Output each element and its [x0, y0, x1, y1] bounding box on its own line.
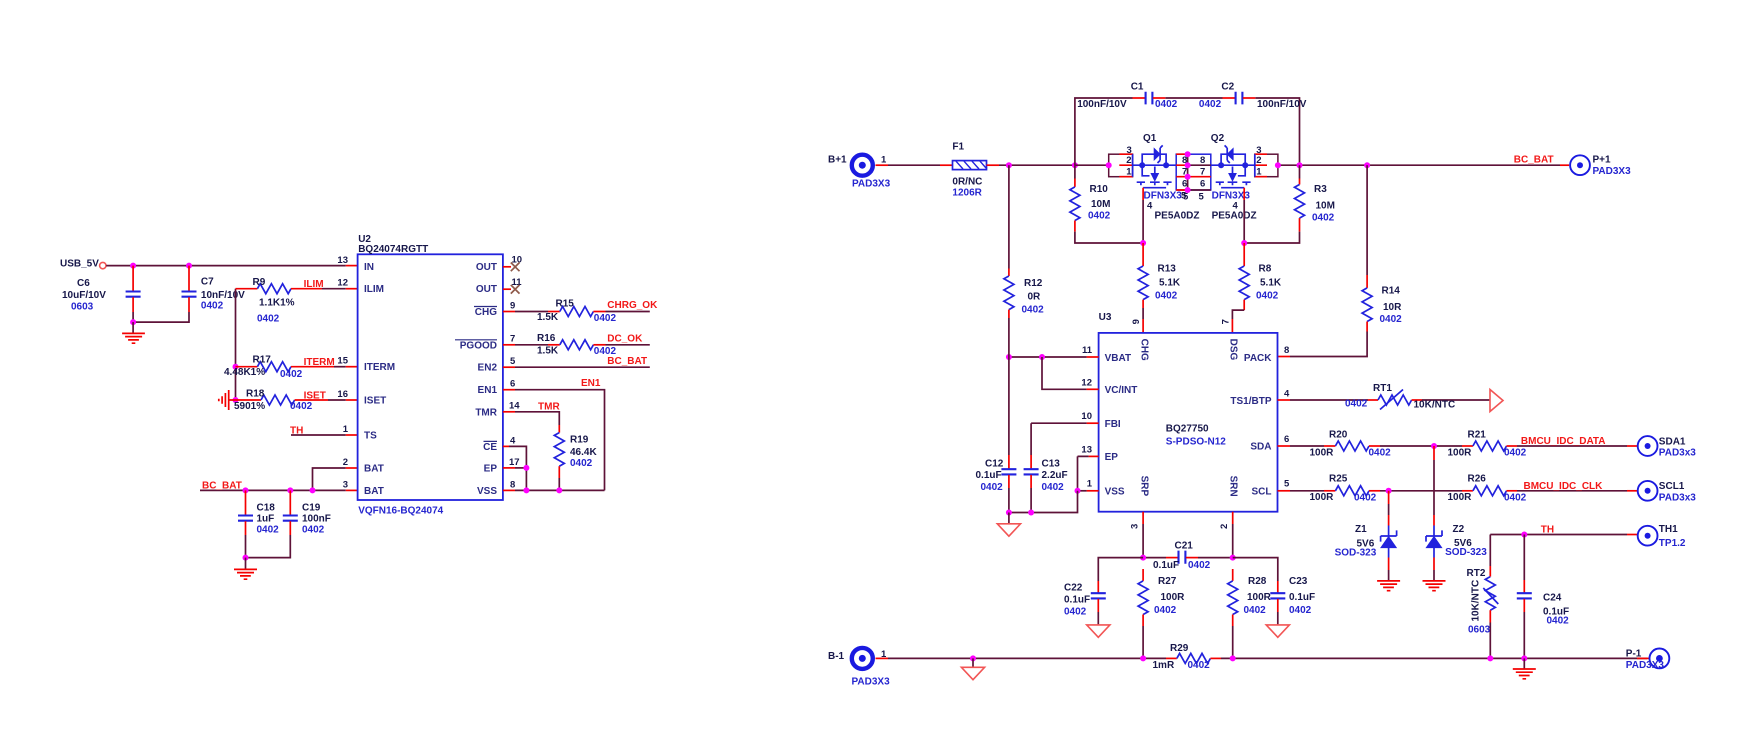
svg-text:10: 10: [1081, 411, 1092, 422]
junction: [1521, 655, 1527, 661]
svg-text:6: 6: [510, 379, 515, 390]
wire B- rail: [876, 657, 889, 659]
wire VSS pin: [1087, 490, 1099, 492]
svg-text:4: 4: [510, 435, 516, 446]
svg-text:OUT: OUT: [476, 284, 497, 295]
pad P+1: [1570, 155, 1590, 175]
ground (earth) under Z1: [1377, 581, 1400, 591]
ground (triangle) under C22: [1087, 625, 1110, 637]
svg-text:SOD-323: SOD-323: [1335, 548, 1377, 559]
svg-text:100R: 100R: [1310, 447, 1335, 458]
svg-text:0402: 0402: [1256, 290, 1279, 301]
svg-text:EN2: EN2: [478, 363, 498, 374]
svg-text:1: 1: [1126, 166, 1132, 177]
zener Z2 (on SDA): [1433, 446, 1435, 460]
svg-text:17: 17: [509, 457, 520, 468]
pad TH1: [1638, 526, 1658, 546]
svg-text:4.48K1%: 4.48K1%: [224, 367, 265, 378]
thermistor RT2: [1489, 535, 1491, 567]
svg-text:9: 9: [1131, 319, 1142, 324]
off-page arrow: [1490, 390, 1503, 412]
svg-text:EN1: EN1: [478, 385, 498, 396]
svg-text:PAD3X3: PAD3X3: [852, 179, 891, 190]
svg-text:0402: 0402: [302, 525, 325, 536]
svg-text:DC_OK: DC_OK: [607, 334, 643, 345]
resistor R21: [1462, 445, 1473, 447]
svg-text:R13: R13: [1158, 263, 1177, 274]
svg-text:R26: R26: [1468, 474, 1487, 485]
svg-text:0R: 0R: [1028, 292, 1042, 303]
svg-text:BQ24074RGTT: BQ24074RGTT: [358, 244, 428, 255]
wire EN1 loop: [503, 389, 515, 391]
junction: [1140, 555, 1146, 561]
junction: [523, 465, 529, 471]
IC U3 BQ27750 box: [1099, 333, 1278, 512]
wire ILIM vertical feed: [235, 289, 237, 400]
capacitor C12: [1008, 357, 1010, 455]
svg-text:VBAT: VBAT: [1105, 353, 1131, 364]
capacitor C2: [1223, 97, 1236, 99]
wire gnd rail under C12/C13: [1009, 491, 1078, 513]
resistor R9: [236, 288, 258, 290]
svg-text:RT2: RT2: [1467, 568, 1486, 579]
svg-text:4: 4: [1284, 388, 1290, 399]
junction: [1364, 162, 1370, 168]
svg-text:0402: 0402: [1064, 606, 1087, 617]
svg-text:R16: R16: [537, 333, 556, 344]
svg-text:R19: R19: [570, 435, 589, 446]
capacitor C22: [1098, 558, 1143, 581]
pad P-1: [1637, 657, 1650, 659]
svg-text:100nF/10V: 100nF/10V: [1257, 99, 1307, 110]
svg-text:R15: R15: [556, 299, 575, 310]
svg-text:TH1: TH1: [1659, 524, 1678, 535]
wire main line segments: [1075, 164, 1109, 166]
svg-text:0402: 0402: [1154, 605, 1177, 616]
svg-text:R25: R25: [1329, 474, 1348, 485]
svg-text:1: 1: [1256, 166, 1262, 177]
svg-text:0402: 0402: [1504, 448, 1527, 459]
junction: [310, 487, 316, 493]
svg-text:C13: C13: [1042, 459, 1061, 470]
ground (earth) under C18: [245, 558, 247, 569]
ground (triangle) on B- rail: [972, 658, 974, 666]
svg-text:2: 2: [1256, 155, 1261, 166]
junction: [233, 364, 239, 370]
capacitor C24: [1523, 535, 1525, 581]
junction: [243, 555, 249, 561]
junction: [243, 487, 249, 493]
svg-text:5.1K: 5.1K: [1159, 277, 1181, 288]
svg-text:0402: 0402: [1354, 492, 1377, 503]
svg-text:9: 9: [510, 300, 515, 311]
svg-text:100R: 100R: [1448, 447, 1473, 458]
svg-text:7: 7: [1182, 166, 1187, 177]
svg-text:4: 4: [1147, 201, 1153, 212]
resistor R29: [1166, 657, 1177, 659]
svg-text:0402: 0402: [1188, 660, 1211, 671]
wire Q1 gate down: [1142, 188, 1144, 200]
capacitor C6: [132, 266, 134, 291]
junction: [1487, 655, 1493, 661]
svg-text:0.1uF: 0.1uF: [976, 470, 1002, 481]
svg-text:P-1: P-1: [1626, 649, 1642, 660]
junction: [130, 263, 136, 269]
svg-text:0402: 0402: [1345, 398, 1368, 409]
resistor R18: [236, 399, 262, 401]
svg-text:C1: C1: [1131, 82, 1144, 93]
svg-text:Q1: Q1: [1143, 133, 1157, 144]
svg-text:FBI: FBI: [1105, 419, 1121, 430]
svg-text:R29: R29: [1170, 643, 1189, 654]
ground (earth) under C6/C7: [132, 322, 134, 333]
wire SRN down: [1232, 512, 1234, 524]
svg-text:16: 16: [337, 389, 348, 400]
svg-text:BC_BAT: BC_BAT: [1514, 155, 1554, 166]
svg-text:13: 13: [1081, 444, 1092, 455]
svg-text:C19: C19: [302, 503, 321, 514]
svg-text:1uF: 1uF: [257, 514, 275, 525]
wire B+1 to F1: [876, 164, 889, 166]
svg-text:C2: C2: [1221, 82, 1234, 93]
wire EN2 BC_BAT: [503, 366, 515, 368]
wire TMR: [503, 411, 515, 413]
svg-text:P+1: P+1: [1593, 155, 1612, 166]
svg-text:BAT: BAT: [364, 486, 384, 497]
svg-text:100R: 100R: [1247, 592, 1272, 603]
svg-text:100R: 100R: [1161, 592, 1186, 603]
svg-text:S-PDSO-N12: S-PDSO-N12: [1166, 436, 1226, 447]
junction: [1140, 240, 1146, 246]
svg-text:7: 7: [1220, 319, 1231, 324]
svg-text:R21: R21: [1468, 430, 1487, 441]
resistor R8: [1243, 243, 1245, 266]
svg-text:10nF/10V: 10nF/10V: [201, 290, 245, 301]
svg-text:R28: R28: [1248, 576, 1267, 587]
svg-text:R3: R3: [1314, 184, 1327, 195]
connector pin box Q1 left (pins 3/2/1): [1109, 154, 1133, 177]
wire VSS bottom run: [503, 489, 515, 491]
ground (triangle) under C23: [1266, 625, 1289, 637]
svg-text:PE5A0DZ: PE5A0DZ: [1212, 210, 1257, 221]
svg-text:C12: C12: [985, 459, 1004, 470]
svg-text:0.1uF: 0.1uF: [1289, 592, 1315, 603]
svg-text:5: 5: [1284, 479, 1290, 490]
capacitor C21: [1143, 557, 1166, 559]
svg-text:R14: R14: [1382, 286, 1401, 297]
junction: [1230, 655, 1236, 661]
svg-text:BAT: BAT: [364, 463, 384, 474]
U2 overbars CHG/PGOOD/CE: [455, 307, 497, 442]
svg-text:U3: U3: [1099, 312, 1112, 323]
wire BC_BAT to BAT pin3: [200, 489, 346, 491]
connector pin box middle (pins 8/7/6): [1176, 154, 1211, 190]
svg-text:5: 5: [510, 356, 516, 367]
svg-text:C23: C23: [1289, 576, 1308, 587]
svg-text:7: 7: [510, 334, 515, 345]
svg-text:B-1: B-1: [828, 651, 845, 662]
svg-text:14: 14: [509, 401, 520, 412]
svg-text:C24: C24: [1543, 592, 1562, 603]
svg-text:RT1: RT1: [1373, 383, 1392, 394]
svg-text:BC_BAT: BC_BAT: [202, 481, 242, 492]
resistor R10: [1074, 179, 1076, 187]
svg-text:0R/NC: 0R/NC: [952, 177, 982, 188]
svg-text:0402: 0402: [201, 301, 224, 312]
svg-text:BMCU_IDC_CLK: BMCU_IDC_CLK: [1524, 481, 1604, 492]
svg-text:PAD3X3: PAD3X3: [1626, 660, 1665, 671]
capacitor C23: [1233, 558, 1278, 581]
svg-text:DFN3X3: DFN3X3: [1144, 190, 1183, 201]
capacitor C13 / FBI: [1087, 422, 1099, 424]
ground (triangle) under C12 rail: [1008, 513, 1010, 524]
svg-text:VC/INT: VC/INT: [1105, 385, 1138, 396]
svg-text:0402: 0402: [1042, 482, 1065, 493]
svg-text:8: 8: [1284, 345, 1289, 356]
wire top loop: [1075, 98, 1300, 165]
svg-text:BC_BAT: BC_BAT: [607, 356, 647, 367]
svg-text:5901%: 5901%: [234, 401, 265, 412]
svg-text:0402: 0402: [1188, 560, 1211, 571]
svg-text:R27: R27: [1158, 576, 1177, 587]
svg-text:R18: R18: [246, 389, 265, 400]
svg-text:8: 8: [1200, 155, 1205, 166]
svg-text:7: 7: [1200, 166, 1205, 177]
svg-text:R17: R17: [253, 355, 272, 366]
wire TH net: [1490, 534, 1627, 536]
svg-text:BQ27750: BQ27750: [1166, 424, 1209, 435]
svg-text:0402: 0402: [1155, 99, 1178, 110]
svg-text:3: 3: [343, 479, 348, 490]
svg-text:TMR: TMR: [538, 402, 560, 413]
svg-text:6: 6: [1284, 434, 1289, 445]
svg-text:0603: 0603: [71, 301, 94, 312]
junction: [1230, 555, 1236, 561]
junction: [1006, 162, 1012, 168]
svg-text:1: 1: [343, 424, 349, 435]
svg-text:R12: R12: [1024, 278, 1043, 289]
resistor R3: [1299, 179, 1301, 185]
svg-text:B+1: B+1: [828, 154, 847, 165]
svg-text:0402: 0402: [1022, 305, 1045, 316]
ground tap (left-pointing earth) at R18: [219, 390, 236, 410]
pad SDA1: [1638, 436, 1658, 456]
junction: [1241, 240, 1247, 246]
svg-text:TS: TS: [364, 431, 377, 442]
svg-text:PAD3x3: PAD3x3: [1659, 492, 1696, 503]
wire USB_5V to U2 pin13: [106, 265, 346, 267]
svg-text:0402: 0402: [1380, 314, 1403, 325]
svg-text:10M: 10M: [1316, 201, 1335, 212]
junction: [1072, 162, 1078, 168]
svg-text:TP1.2: TP1.2: [1659, 538, 1686, 549]
svg-text:C7: C7: [201, 277, 214, 288]
capacitor C18: [245, 490, 247, 515]
resistor R16 PGOOD net: [503, 344, 515, 346]
svg-text:R8: R8: [1259, 263, 1272, 274]
svg-text:PAD3x3: PAD3x3: [1659, 448, 1696, 459]
svg-text:5: 5: [1199, 192, 1205, 203]
svg-text:0402: 0402: [257, 525, 280, 536]
svg-text:1: 1: [1087, 479, 1093, 490]
pad B+1: [852, 155, 873, 176]
svg-text:1.5K: 1.5K: [537, 312, 559, 323]
svg-text:0.1uF: 0.1uF: [1153, 560, 1179, 571]
svg-text:1: 1: [881, 154, 887, 165]
svg-text:Z1: Z1: [1355, 524, 1367, 535]
resistor R26: [1462, 490, 1473, 492]
wire CE/EP/VSS tie: [503, 445, 509, 447]
zener Z1 (on SCL): [1388, 491, 1390, 504]
junction: [130, 319, 136, 325]
svg-text:1.1K1%: 1.1K1%: [259, 297, 295, 308]
svg-text:SCL1: SCL1: [1659, 481, 1685, 492]
svg-text:0402: 0402: [257, 313, 280, 324]
svg-text:EP: EP: [484, 463, 498, 474]
wire EP tie to VSS: [1089, 455, 1099, 457]
svg-text:TH: TH: [1541, 525, 1554, 536]
svg-text:0402: 0402: [1199, 99, 1222, 110]
svg-text:ISET: ISET: [304, 391, 326, 402]
svg-text:SRN: SRN: [1228, 476, 1239, 497]
pad SCL1: [1638, 481, 1658, 501]
svg-text:1mR: 1mR: [1153, 660, 1175, 671]
svg-text:2.2uF: 2.2uF: [1042, 470, 1068, 481]
junction: [186, 263, 192, 269]
svg-text:ILIM: ILIM: [304, 279, 324, 290]
svg-text:Z2: Z2: [1453, 524, 1465, 535]
svg-text:8: 8: [1182, 155, 1187, 166]
node USB_5V terminal: [100, 262, 106, 268]
capacitor C7: [188, 266, 190, 291]
svg-text:SCL: SCL: [1252, 486, 1272, 497]
fuse F1: [953, 161, 987, 170]
junction: [1140, 655, 1146, 661]
resistor R27: [1142, 569, 1144, 581]
svg-text:0603: 0603: [1468, 624, 1491, 635]
resistor R15 CHG net: [503, 311, 515, 313]
svg-text:0402: 0402: [1369, 448, 1392, 459]
junction: [1431, 443, 1437, 449]
svg-text:10K/NTC: 10K/NTC: [1470, 580, 1481, 622]
svg-text:100nF/10V: 100nF/10V: [1077, 99, 1127, 110]
svg-text:PGOOD: PGOOD: [460, 340, 497, 351]
junction: [287, 487, 293, 493]
svg-text:0402: 0402: [280, 369, 303, 380]
ground (earth) on B- rail at C24: [1523, 658, 1525, 668]
svg-text:1206R: 1206R: [952, 188, 982, 199]
junction: [1297, 162, 1303, 168]
svg-text:EP: EP: [1105, 452, 1119, 463]
junction: [1386, 488, 1392, 494]
svg-text:ITERM: ITERM: [304, 357, 335, 368]
svg-text:ITERM: ITERM: [364, 362, 395, 373]
svg-text:C21: C21: [1175, 540, 1194, 551]
svg-text:15: 15: [337, 356, 348, 367]
svg-text:12: 12: [337, 277, 348, 288]
svg-text:R10: R10: [1090, 184, 1109, 195]
svg-text:8: 8: [510, 479, 515, 490]
svg-text:0402: 0402: [290, 401, 313, 412]
wire BAT pin2 jog: [313, 468, 346, 490]
svg-text:CHRG_OK: CHRG_OK: [607, 300, 658, 311]
svg-text:2: 2: [343, 457, 348, 468]
svg-text:VSS: VSS: [477, 486, 497, 497]
svg-text:0402: 0402: [981, 482, 1004, 493]
svg-text:Q2: Q2: [1211, 133, 1225, 144]
svg-text:0402: 0402: [1155, 290, 1178, 301]
svg-text:100R: 100R: [1310, 492, 1335, 503]
svg-text:5.1K: 5.1K: [1260, 277, 1282, 288]
svg-text:PAD3X3: PAD3X3: [852, 677, 891, 688]
resistor R20: [1278, 445, 1291, 447]
svg-text:0402: 0402: [1088, 211, 1111, 222]
wire VBAT row: [1087, 356, 1099, 358]
svg-text:BMCU_IDC_DATA: BMCU_IDC_DATA: [1521, 436, 1606, 447]
connector pin box Q2 right (pins 3/2/1): [1255, 154, 1278, 177]
wire F1 to main node: [987, 164, 1000, 166]
svg-text:ILIM: ILIM: [364, 284, 384, 295]
svg-text:2: 2: [1219, 524, 1230, 529]
svg-text:TS1/BTP: TS1/BTP: [1230, 396, 1271, 407]
svg-text:12: 12: [1081, 377, 1092, 388]
svg-text:0.1uF: 0.1uF: [1064, 594, 1090, 605]
svg-text:IN: IN: [364, 262, 374, 273]
svg-text:0402: 0402: [1504, 492, 1527, 503]
svg-text:TMR: TMR: [475, 407, 497, 418]
svg-text:SDA1: SDA1: [1659, 436, 1686, 447]
junction: [233, 397, 239, 403]
op IC U2 BQ24074RGTT box: [358, 254, 503, 500]
svg-text:TH: TH: [290, 426, 303, 437]
resistor R19: [558, 425, 560, 433]
no-connect X pin11: [503, 288, 511, 290]
wire SRP down: [1142, 512, 1144, 524]
svg-text:SRP: SRP: [1139, 476, 1150, 497]
svg-text:13: 13: [337, 255, 348, 266]
svg-text:CHG: CHG: [475, 307, 497, 318]
svg-text:0402: 0402: [1547, 616, 1570, 627]
svg-text:1.5K: 1.5K: [537, 345, 559, 356]
resistor R14: [1366, 165, 1368, 275]
svg-text:ISET: ISET: [364, 396, 386, 407]
pad B-1: [852, 648, 873, 669]
svg-text:VSS: VSS: [1105, 486, 1125, 497]
wire TH to TS pin: [291, 434, 346, 436]
resistor R17: [236, 366, 258, 368]
svg-text:USB_5V: USB_5V: [60, 259, 99, 270]
svg-text:0402: 0402: [594, 313, 617, 324]
svg-text:DSG: DSG: [1228, 339, 1239, 361]
svg-text:10uF/10V: 10uF/10V: [62, 290, 106, 301]
svg-text:2: 2: [1126, 155, 1131, 166]
junction: [970, 655, 976, 661]
thermistor RT1 (TS1/BTP): [1278, 399, 1291, 401]
svg-text:SDA: SDA: [1250, 442, 1271, 453]
svg-text:10R: 10R: [1383, 302, 1402, 313]
svg-text:0402: 0402: [1312, 213, 1335, 224]
resistor R12: [1008, 165, 1010, 268]
junction: [556, 487, 562, 493]
svg-text:0402: 0402: [1244, 605, 1267, 616]
wire VC/INT: [1042, 357, 1087, 389]
junction: [1521, 532, 1527, 538]
svg-text:100nF: 100nF: [302, 514, 331, 525]
svg-text:11: 11: [1082, 345, 1093, 356]
resistor R28: [1232, 569, 1234, 581]
svg-text:SOD-323: SOD-323: [1445, 547, 1487, 558]
svg-text:0402: 0402: [570, 458, 593, 469]
